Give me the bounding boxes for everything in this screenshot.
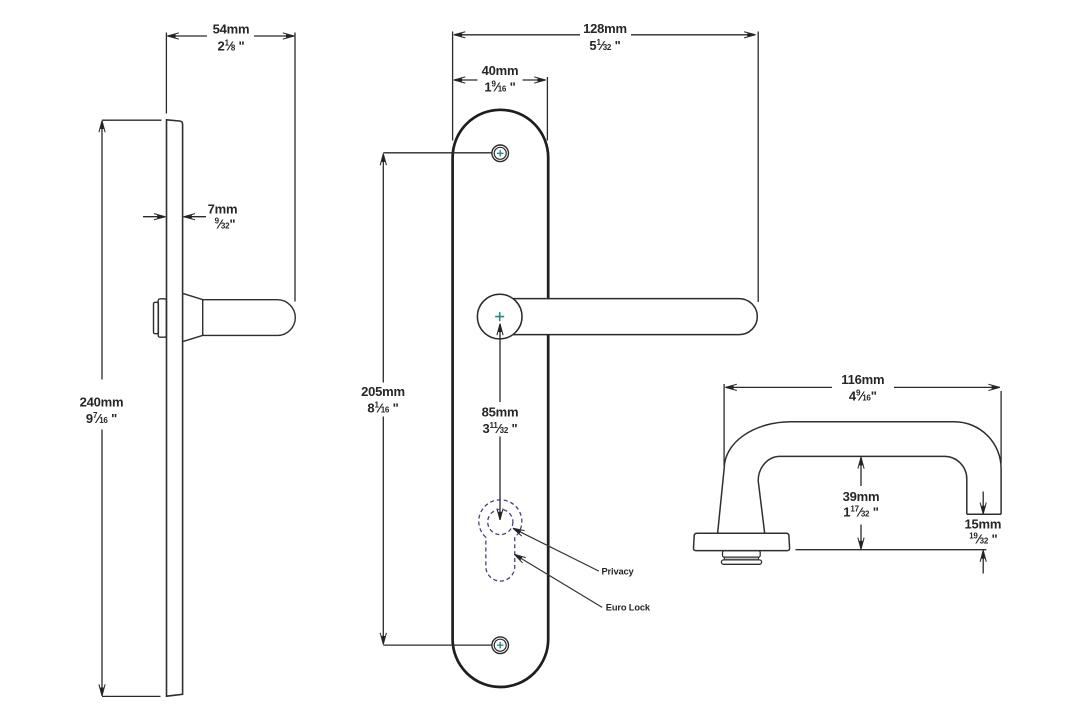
- svg-text:7mm: 7mm: [208, 202, 238, 217]
- svg-text:240mm: 240mm: [80, 395, 124, 410]
- svg-text:39mm: 39mm: [843, 489, 880, 504]
- svg-text:40mm: 40mm: [482, 63, 519, 78]
- svg-text:116mm: 116mm: [841, 372, 884, 387]
- svg-text:117⁄32 ": 117⁄32 ": [843, 504, 878, 519]
- svg-text:49⁄16": 49⁄16": [849, 389, 877, 404]
- svg-text:Euro Lock: Euro Lock: [606, 603, 651, 613]
- svg-text:205mm: 205mm: [361, 384, 405, 399]
- svg-text:15mm: 15mm: [965, 517, 1002, 532]
- svg-text:19⁄32 ": 19⁄32 ": [969, 531, 997, 546]
- svg-text:81⁄16 ": 81⁄16 ": [367, 400, 398, 415]
- svg-text:Privacy: Privacy: [602, 567, 635, 577]
- svg-text:21⁄8 ": 21⁄8 ": [218, 39, 245, 54]
- svg-text:9⁄32": 9⁄32": [215, 217, 236, 232]
- svg-text:54mm: 54mm: [213, 22, 250, 37]
- svg-text:97⁄16 ": 97⁄16 ": [86, 411, 117, 426]
- svg-text:19⁄16 ": 19⁄16 ": [484, 79, 515, 94]
- svg-text:128mm: 128mm: [583, 21, 627, 36]
- svg-text:85mm: 85mm: [482, 405, 519, 420]
- svg-text:51⁄32 ": 51⁄32 ": [589, 38, 620, 53]
